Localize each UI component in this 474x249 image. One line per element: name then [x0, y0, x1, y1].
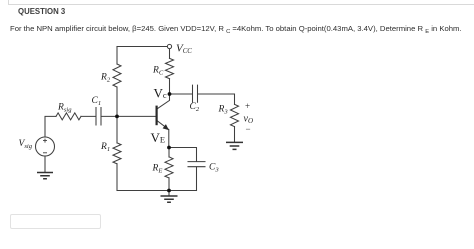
- wire R1 bottom: [116, 164, 118, 191]
- svg-text:C1: C1: [92, 96, 102, 107]
- svg-text:Vsig: Vsig: [19, 139, 33, 150]
- ground R3: [226, 142, 243, 149]
- svg-text:C2: C2: [190, 102, 200, 113]
- svg-text:VE: VE: [151, 130, 166, 145]
- wire collector lead: [157, 94, 169, 109]
- wire VCC to RC: [169, 49, 171, 59]
- wire emitter node to C3 branch: [169, 148, 197, 162]
- node VE emitter dot: [167, 146, 171, 150]
- capacitor C2: [193, 85, 198, 102]
- svg-text:R3: R3: [218, 105, 229, 116]
- transistor Q1 emitter arrowhead: [163, 124, 169, 130]
- svg-text:C3: C3: [209, 163, 219, 174]
- top-left border sliver: [8, 0, 9, 5]
- wire top rail: [117, 46, 167, 48]
- wire emitter lead: [157, 121, 168, 148]
- resistor Rsig: [56, 113, 81, 120]
- svg-text:R2: R2: [100, 73, 111, 84]
- source Vsig circle: [36, 137, 55, 156]
- resistor RE: [165, 157, 173, 178]
- wire R3 to ground: [234, 127, 236, 142]
- resistor R1: [113, 143, 121, 164]
- svg-text:VCC: VCC: [176, 43, 192, 55]
- wire Vsig to Rsig: [45, 116, 56, 137]
- resistor RC: [166, 58, 174, 78]
- capacitor C1: [96, 108, 101, 126]
- svg-text:RE: RE: [152, 164, 163, 175]
- wire R2 top: [116, 47, 118, 65]
- svg-text:−: −: [246, 124, 251, 134]
- wire bottom rail: [117, 190, 197, 192]
- wire emitter node to RE: [168, 148, 170, 157]
- source Vsig plus sign: [43, 139, 47, 143]
- svg-text:Rsig: Rsig: [57, 103, 72, 114]
- svg-text:+: +: [245, 101, 250, 111]
- svg-text:Vc: Vc: [154, 86, 167, 101]
- terminal VCC open circle: [167, 44, 171, 48]
- ground Vsig: [37, 173, 53, 179]
- wire RE bottom: [168, 178, 170, 191]
- wire R2 bottom to base node to R1 top: [116, 87, 118, 143]
- wire collector to C2: [171, 93, 192, 95]
- wire Rsig to C1: [81, 115, 96, 117]
- node bottom rail junction dot: [167, 189, 171, 193]
- source Vsig minus sign: [43, 152, 47, 154]
- svg-text:RC: RC: [152, 66, 164, 77]
- node Vc collector dot: [168, 92, 172, 96]
- resistor R2: [113, 64, 121, 87]
- ground emitter: [161, 196, 178, 202]
- wire RC bottom to collector node: [169, 79, 171, 94]
- wire emitter ground stem: [168, 191, 170, 196]
- transistor Q1 body bar: [156, 106, 158, 126]
- wire C2 to R3: [198, 94, 235, 104]
- resistor R3: [231, 104, 239, 126]
- wire C3 bottom: [196, 167, 198, 191]
- capacitor C3: [188, 162, 205, 167]
- svg-text:R1: R1: [100, 142, 110, 153]
- top divider line: [8, 4, 474, 5]
- wire base lead: [101, 115, 156, 117]
- node base junction dot: [115, 115, 119, 119]
- wire Vsig ground stem: [44, 156, 46, 172]
- answer input box: [10, 214, 101, 229]
